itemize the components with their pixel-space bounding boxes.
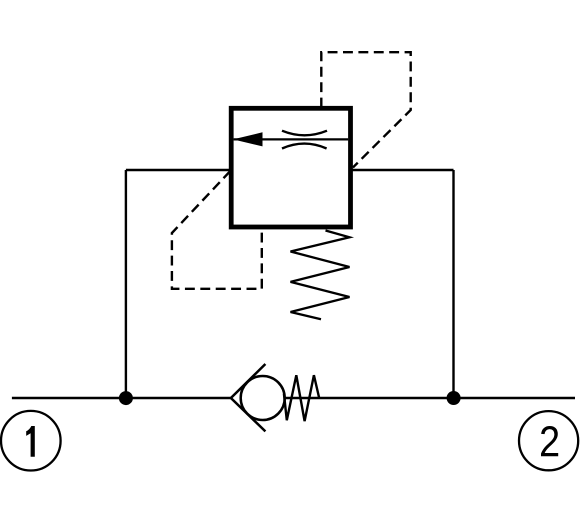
port 1 label	[26, 426, 35, 457]
valve flow arrow	[233, 132, 263, 146]
check valve circle	[241, 376, 285, 420]
spring of valve (below body)	[291, 231, 350, 320]
wire main line right segment (check valve to port 2)	[280, 397, 575, 400]
pilot line left (dashed)	[172, 171, 262, 289]
wire main line left segment (port 1 to check valve seat)	[12, 397, 231, 400]
port 1 circle	[1, 411, 61, 471]
pilot line top (dashed)	[321, 52, 410, 167]
port 2 circle	[519, 411, 578, 470]
junction dot right	[447, 391, 461, 405]
wire right branch to valve	[351, 169, 454, 171]
restriction lower arc	[282, 144, 327, 149]
junction dot left	[119, 391, 133, 405]
wire left branch to valve	[126, 169, 231, 171]
check valve spring	[284, 375, 319, 421]
wire left riser	[125, 170, 127, 398]
check valve seat	[231, 364, 266, 431]
restriction upper arc	[282, 131, 327, 136]
wire right riser	[452, 170, 454, 398]
valve inner flow line	[234, 138, 349, 140]
port 2 label	[541, 426, 558, 456]
valve body V1	[231, 108, 350, 227]
